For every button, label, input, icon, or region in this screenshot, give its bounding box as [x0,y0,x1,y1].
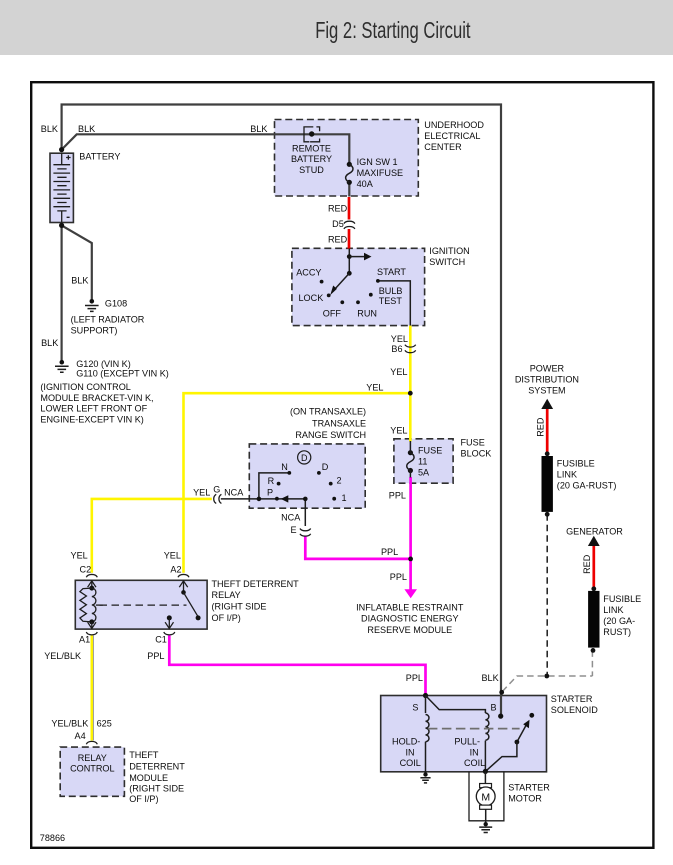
svg-text:BATTERY: BATTERY [79,152,120,162]
svg-text:78866: 78866 [40,833,65,843]
svg-text:BLOCK: BLOCK [461,448,492,458]
svg-text:PPL: PPL [389,490,406,500]
contact LOCK [327,294,331,298]
starter solenoid box [381,696,547,772]
solenoid switch contact and armature [485,713,534,772]
wire inside ignition switch to pivot [348,248,350,273]
svg-text:BLK: BLK [41,338,58,348]
svg-text:E: E [291,525,297,535]
wire BLK battery positive to remote battery stud [62,134,350,164]
svg-text:A4: A4 [75,731,86,741]
svg-text:FUSE: FUSE [418,445,442,455]
svg-text:DETERRENT: DETERRENT [129,761,185,771]
wire RED UEC to D5 connector [348,197,351,220]
svg-text:C1: C1 [155,634,167,644]
ground G108 [85,299,99,311]
relay coil and resistor (theft deterrent relay) [80,580,103,628]
svg-text:BLK: BLK [481,673,498,683]
svg-text:G: G [213,484,220,494]
junction PPL splice [408,557,413,562]
svg-text:RUN: RUN [357,308,377,318]
svg-text:BULB: BULB [379,286,403,296]
contact ACCY [320,280,324,284]
starter motor housing frame [469,772,504,821]
svg-text:M: M [481,791,490,803]
svg-text:NCA: NCA [281,513,301,523]
ground at solenoid hold-in coil [420,772,430,783]
junction battery positive [59,147,64,152]
svg-text:(LEFT RADIATOR: (LEFT RADIATOR [71,315,145,325]
fuse IGN SW 1 MAXIFUSE 40A [346,162,353,185]
title header bar [0,0,673,55]
connector E [300,529,311,537]
connector A1 (relay bottom) [86,632,97,635]
relay linkage dashed line [100,604,187,606]
svg-text:YEL: YEL [390,367,407,377]
svg-text:OF I/P): OF I/P) [129,794,158,804]
svg-text:STARTER: STARTER [551,694,593,704]
transaxle contact 1 [332,497,336,501]
svg-text:YEL: YEL [193,488,210,498]
ground G120/G110 [55,360,69,372]
svg-text:TEST: TEST [379,296,403,306]
svg-text:G110 (EXCEPT VIN K): G110 (EXCEPT VIN K) [76,369,169,379]
ignition switch pivot and lever [347,271,352,276]
svg-text:UNDERHOOD: UNDERHOOD [424,120,484,130]
svg-text:SYSTEM: SYSTEM [528,386,565,396]
svg-text:(RIGHT SIDE: (RIGHT SIDE [212,602,267,612]
svg-text:COIL: COIL [400,758,421,768]
svg-text:ELECTRICAL: ELECTRICAL [424,131,480,141]
svg-text:TRANSAXLE: TRANSAXLE [312,418,366,428]
wire PPL relay C1 to starter solenoid S [169,636,425,695]
wire RED D5 connector to ignition switch box [348,229,351,249]
svg-text:RED: RED [328,204,348,214]
svg-text:YEL: YEL [164,551,181,561]
svg-text:START: START [377,267,406,277]
junction transaxle N-branch [257,497,262,502]
junction solenoid output [483,769,488,774]
wire YEL G connector to theft deterrent relay C2 [92,499,212,573]
svg-text:IN: IN [406,747,415,757]
svg-text:DIAGNOSTIC ENERGY: DIAGNOSTIC ENERGY [361,614,459,624]
svg-text:REMOTE: REMOTE [292,143,331,153]
svg-text:PPL: PPL [406,673,423,683]
svg-text:ACCY: ACCY [296,267,321,277]
svg-text:IN: IN [470,747,479,757]
theft deterrent module (relay control) box [60,747,124,796]
transaxle wiper arrow toward P [281,495,289,502]
transaxle contact P [275,497,279,501]
ground at starter motor [479,822,492,833]
wire PPL fuse 11 to inflatable restraint module arrow [409,477,412,590]
theft deterrent relay box [75,580,207,629]
connector D5 [344,221,355,229]
wire RED power distribution arrow to fusible link 1 [546,407,549,455]
junction transaxle center contact [303,497,308,502]
svg-text:YEL: YEL [71,551,88,561]
svg-text:625: 625 [97,719,112,729]
junction dashed splice [544,674,549,679]
svg-text:RED: RED [535,417,545,437]
svg-text:Fig 2: Starting Circuit: Fig 2: Starting Circuit [315,18,471,43]
svg-text:2: 2 [337,476,342,486]
transaxle contact N [287,471,291,475]
junction battery negative [59,223,64,228]
svg-text:COIL: COIL [464,758,485,768]
svg-text:THEFT: THEFT [129,750,159,760]
junction BLK at solenoid B [498,714,503,719]
svg-text:40A: 40A [357,179,374,189]
svg-text:LOCK: LOCK [299,293,324,303]
svg-text:YEL: YEL [390,426,407,436]
svg-text:11: 11 [418,456,427,466]
svg-text:D: D [301,453,308,463]
junction YEL splice [408,391,413,396]
svg-text:LINK: LINK [603,605,623,615]
generator arrow [588,536,600,546]
wire inside transaxle switch from G to center contact [221,498,305,500]
svg-text:FUSIBLE: FUSIBLE [557,458,595,468]
svg-text:BLK: BLK [250,124,267,134]
svg-text:POWER: POWER [530,364,565,374]
transaxle contact R [277,482,281,486]
svg-text:OF I/P): OF I/P) [212,613,241,623]
dashed wire splice run to solenoid B wire and generator fusible link [502,676,592,692]
junction dashed splice at solenoid B wire [499,690,504,695]
svg-text:RED: RED [328,235,348,245]
solenoid pull-in coil [485,713,489,771]
svg-text:HOLD-: HOLD- [392,737,420,747]
connector A2 (relay top) [178,574,189,577]
svg-text:FUSE: FUSE [461,437,485,447]
svg-text:(20 GA-RUST): (20 GA-RUST) [557,480,617,490]
svg-text:OFF: OFF [323,308,342,318]
svg-text:YEL: YEL [391,334,408,344]
contact START [376,279,380,283]
svg-text:SUPPORT): SUPPORT) [71,325,118,335]
svg-text:A1: A1 [79,634,90,644]
svg-text:YEL/BLK: YEL/BLK [51,719,88,729]
svg-text:PPL: PPL [381,547,398,557]
relay armature switch [165,580,201,628]
svg-text:INFLATABLE RESTRAINT: INFLATABLE RESTRAINT [356,602,464,612]
svg-text:BLK: BLK [71,276,88,286]
svg-text:MODULE BRACKET-VIN K,: MODULE BRACKET-VIN K, [40,393,153,403]
svg-text:NCA: NCA [224,488,244,498]
transaxle contact D [317,471,321,475]
svg-text:YEL/BLK: YEL/BLK [44,651,81,661]
svg-text:YEL: YEL [366,383,383,393]
svg-text:IGNITION: IGNITION [429,246,469,256]
svg-text:BATTERY: BATTERY [291,154,332,164]
connector C2 (relay top) [86,574,97,577]
svg-text:1: 1 [342,493,347,503]
fusible link 1 (20 GA-RUST) [542,451,553,516]
contact RUN [356,300,360,304]
arrow ignition feed right [349,256,365,258]
connector B6 [405,345,416,353]
svg-text:STARTER: STARTER [508,783,550,793]
wire transaxle E contact to E connector [304,499,306,526]
svg-text:D5: D5 [332,219,344,229]
svg-text:(IGNITION CONTROL: (IGNITION CONTROL [40,382,130,392]
svg-text:STUD: STUD [299,165,324,175]
battery B1 [50,153,73,222]
wire RED generator arrow to fusible link 2 [592,544,595,590]
svg-text:R: R [268,476,275,486]
solenoid pull-in coil feed from S [426,696,486,714]
fuse 11 5A [407,441,414,478]
dashed wire fusible link 1 to splice [546,514,548,676]
svg-text:(ON TRANSAXLE): (ON TRANSAXLE) [290,407,366,417]
contact OFF [340,300,344,304]
power distribution system arrow [541,399,553,409]
svg-text:PPL: PPL [390,572,407,582]
svg-text:MODULE: MODULE [129,773,168,783]
svg-text:RANGE SWITCH: RANGE SWITCH [295,430,366,440]
svg-text:IGN SW 1: IGN SW 1 [357,157,398,167]
svg-text:RESERVE MODULE: RESERVE MODULE [367,625,452,635]
svg-text:P: P [267,488,273,498]
svg-text:RUST): RUST) [603,627,631,637]
svg-text:PPL: PPL [147,651,164,661]
svg-text:MAXIFUSE: MAXIFUSE [357,168,404,178]
ignition switch box [292,248,425,325]
svg-text:GENERATOR: GENERATOR [566,526,623,536]
fuse block box [394,439,453,483]
starter motor M [476,771,495,823]
transaxle contact 2 [329,482,333,486]
solenoid hold-in coil [426,696,430,775]
remote battery stud terminal [304,127,320,142]
svg-text:RELAY: RELAY [78,753,107,763]
svg-text:CONTROL: CONTROL [70,763,114,773]
wire BLK battery negative diagonal to ground G108 [62,225,92,300]
svg-text:SOLENOID: SOLENOID [551,705,598,715]
dashed wire generator fusible link 2 down to splice run [591,650,593,676]
fusible link 2 (20 GA-RUST) [588,586,599,652]
svg-text:S: S [412,702,418,712]
transaxle circled D indicator [298,451,311,464]
contact BULB TEST [369,293,373,297]
wire PPL E connector to PPL junction [305,537,410,559]
svg-text:THEFT DETERRENT: THEFT DETERRENT [212,579,300,589]
svg-text:FUSIBLE: FUSIBLE [603,594,641,604]
svg-text:ENGINE-EXCEPT VIN K): ENGINE-EXCEPT VIN K) [40,415,143,425]
svg-text:BLK: BLK [41,124,58,134]
svg-text:B: B [491,702,497,712]
svg-text:RED: RED [582,554,592,574]
underhood electrical center box [275,120,419,197]
wire YEL junction to theft deterrent relay A2 [184,393,411,573]
svg-text:MOTOR: MOTOR [508,794,542,804]
solenoid linkage dashed line [428,728,520,730]
svg-text:LOWER LEFT FRONT OF: LOWER LEFT FRONT OF [40,404,147,414]
junction ignition switch feed [347,254,352,259]
wire BLK battery positive to starter solenoid B (top run) [62,105,501,717]
svg-text:C2: C2 [80,564,92,574]
svg-text:(20 GA-: (20 GA- [603,616,635,626]
wire YEL ignition START to B6 connector [378,281,410,326]
transaxle range switch box [249,444,365,508]
svg-text:N: N [281,462,288,472]
svg-text:D: D [322,462,329,472]
connector C1 (relay bottom) [164,632,175,635]
svg-text:A2: A2 [170,564,181,574]
svg-text:RELAY: RELAY [212,590,241,600]
wire YEL/BLK relay A1 to module A4 [91,636,94,741]
connector A4 (module top) [86,741,97,744]
wire BLK battery negative to ground G120/G110 [60,225,62,361]
svg-text:B6: B6 [391,344,402,354]
wire branch to N contact in transaxle switch [259,473,288,499]
svg-text:5A: 5A [418,467,430,477]
svg-text:(RIGHT SIDE: (RIGHT SIDE [129,784,184,794]
svg-text:BLK: BLK [78,124,95,134]
svg-text:PULL-: PULL- [454,737,480,747]
svg-text:DISTRIBUTION: DISTRIBUTION [515,375,579,385]
svg-text:G108: G108 [105,298,127,308]
junction PPL at solenoid S [423,693,428,698]
svg-text:CENTER: CENTER [424,142,462,152]
svg-text:LINK: LINK [557,469,577,479]
connector G [214,494,222,503]
svg-text:SWITCH: SWITCH [429,257,465,267]
wire from maxifuse to UEC box bottom [348,182,350,196]
arrowhead PPL down to inflatable restraint module [404,589,417,598]
svg-text:G120 (VIN K): G120 (VIN K) [76,359,131,369]
